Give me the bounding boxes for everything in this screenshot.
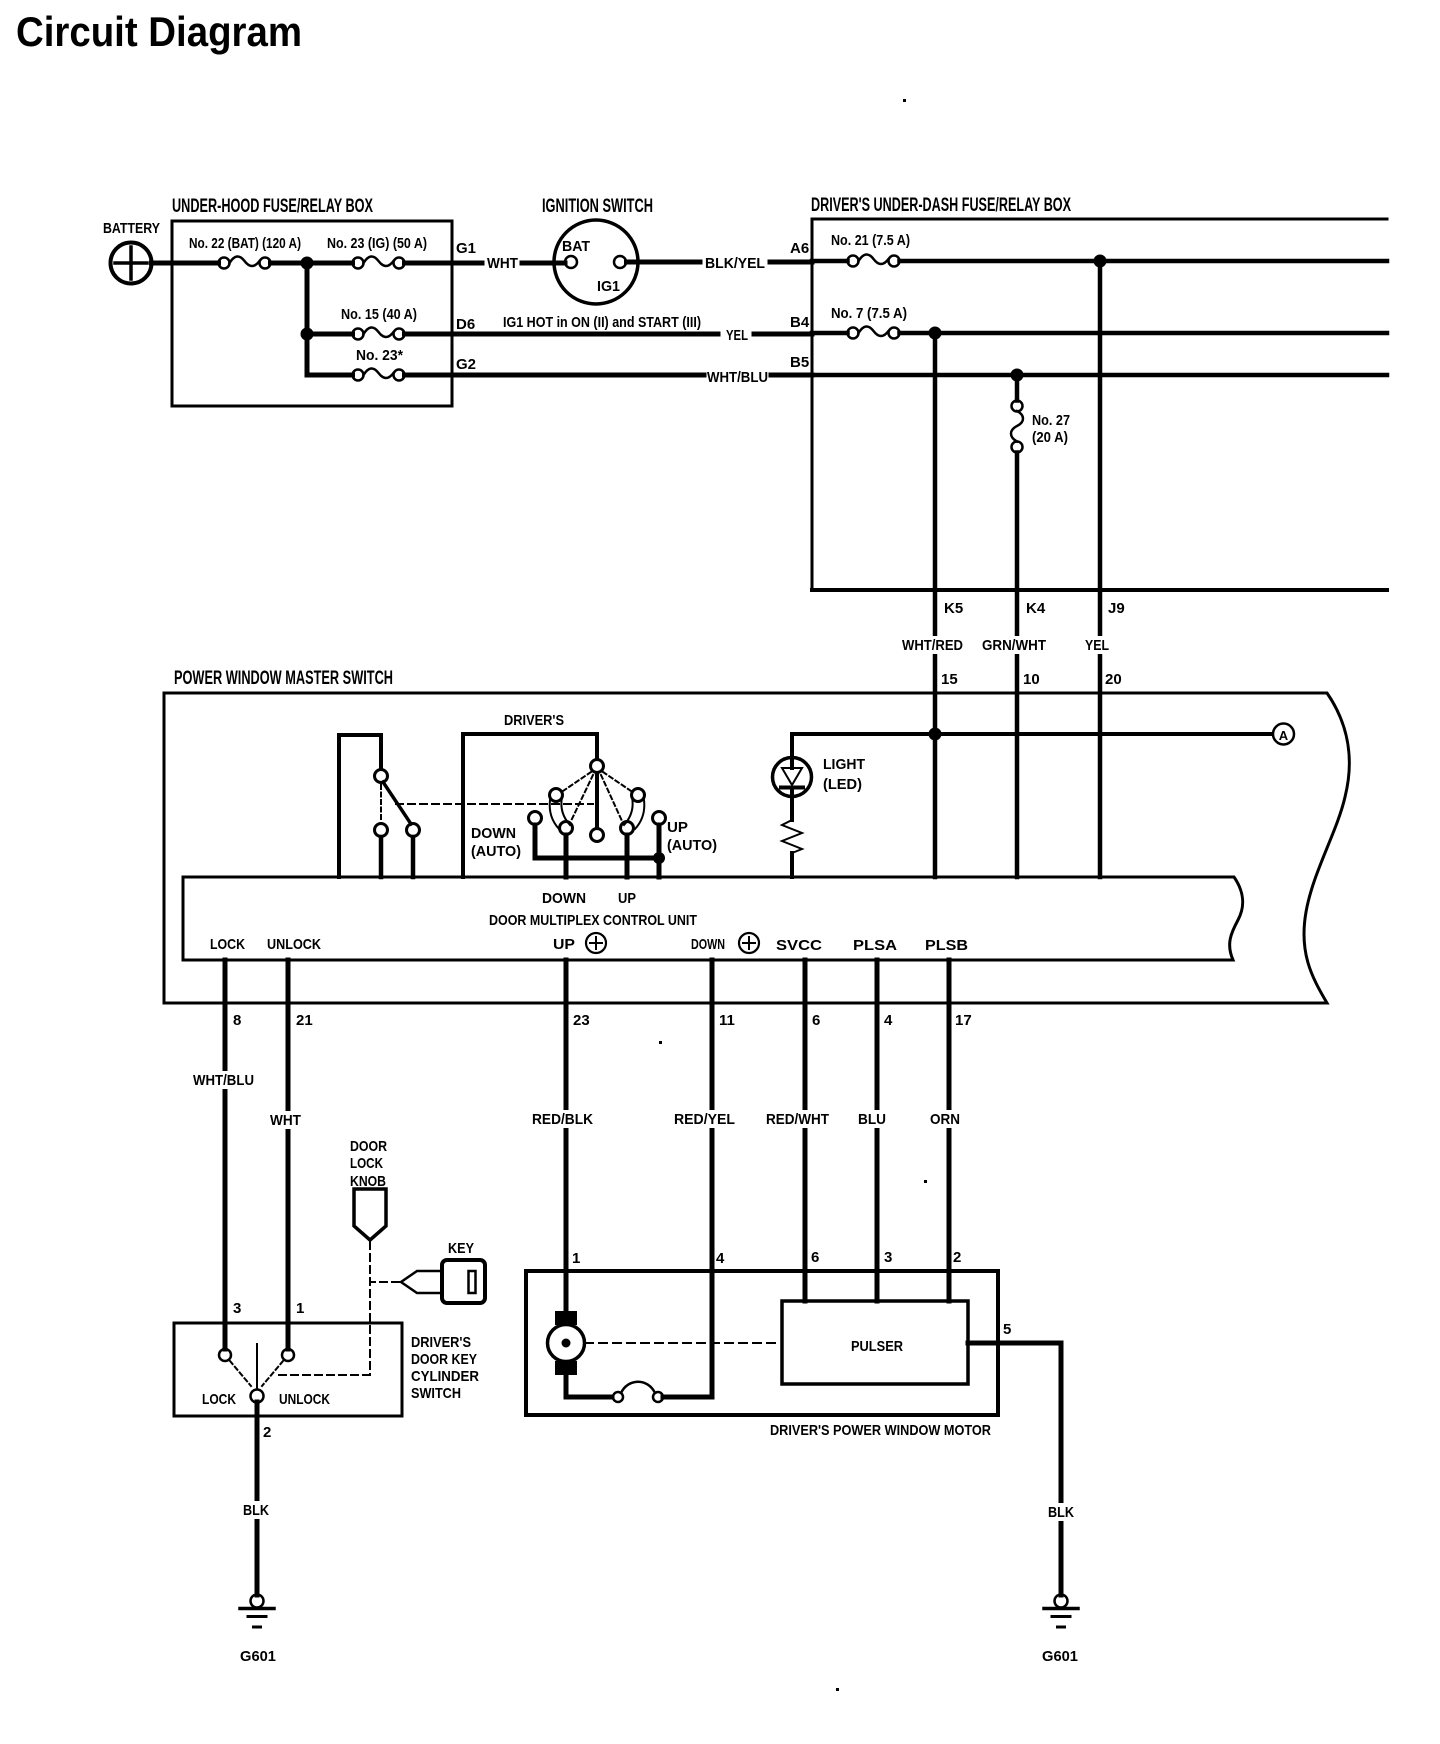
- svg-text:BLK/YEL: BLK/YEL: [705, 255, 765, 272]
- vertical wire junction down: [305, 263, 310, 334]
- speck: [903, 99, 906, 102]
- svg-text:WHT/BLU: WHT/BLU: [707, 369, 768, 386]
- svg-text:DRIVER'S: DRIVER'S: [504, 712, 564, 729]
- fuse No.23*: [353, 368, 405, 380]
- dashed fan line 3: [601, 775, 622, 821]
- svg-text:RED/WHT: RED/WHT: [766, 1111, 829, 1128]
- svg-text:(AUTO): (AUTO): [471, 843, 521, 860]
- label DOOR LOCK KNOB: [350, 1138, 387, 1190]
- svg-text:UNDER-HOOD FUSE/RELAY BOX: UNDER-HOOD FUSE/RELAY BOX: [172, 196, 373, 217]
- svg-text:DRIVER'S POWER WINDOW MOTOR: DRIVER'S POWER WINDOW MOTOR: [770, 1422, 991, 1439]
- dashed link lock to drivers: [396, 803, 593, 805]
- svg-text:LOCK: LOCK: [202, 1391, 236, 1408]
- wire up-auto drop: [657, 825, 662, 877]
- svg-text:J9: J9: [1108, 600, 1125, 617]
- svg-text:PLSA: PLSA: [853, 937, 897, 954]
- wire WHT to ignition BAT: [522, 261, 565, 266]
- svg-text:SVCC: SVCC: [776, 937, 822, 954]
- lock switch pivot contact: [375, 770, 388, 783]
- wire auto bus: [535, 825, 659, 858]
- wire DOWN drop: [710, 960, 715, 1397]
- svg-text:UP: UP: [553, 936, 575, 953]
- svg-text:BLK: BLK: [1048, 1504, 1074, 1521]
- connector A: [1273, 724, 1294, 745]
- svg-text:IG1: IG1: [597, 278, 620, 295]
- svg-text:17: 17: [955, 1012, 972, 1029]
- svg-text:No. 27: No. 27: [1032, 412, 1070, 429]
- svg-text:GRN/WHT: GRN/WHT: [982, 637, 1046, 654]
- svg-text:3: 3: [233, 1300, 241, 1317]
- svg-text:DOOR MULTIPLEX CONTROL UNIT: DOOR MULTIPLEX CONTROL UNIT: [489, 912, 697, 929]
- svg-text:RED/YEL: RED/YEL: [674, 1111, 735, 1128]
- svg-text:A: A: [1279, 728, 1289, 743]
- wire battery to fuse box: [152, 261, 219, 266]
- ground G601 left: [240, 1595, 274, 1628]
- label RED/BLK: [529, 1110, 596, 1128]
- svg-text:BLK: BLK: [243, 1502, 269, 1519]
- fuse No.7 (7.5A): [812, 326, 900, 338]
- dashed motor to pulser: [585, 1342, 781, 1344]
- svg-text:11: 11: [719, 1012, 735, 1029]
- wire junction to fuse23: [307, 261, 353, 266]
- svg-text:(LED): (LED): [823, 776, 862, 793]
- svg-text:WHT/RED: WHT/RED: [902, 637, 963, 654]
- speck: [836, 1688, 839, 1691]
- svg-text:RED/BLK: RED/BLK: [532, 1111, 593, 1128]
- key switch contact unlock: [282, 1349, 294, 1361]
- svg-text:WHT: WHT: [487, 255, 518, 272]
- drivers power window motor box: [526, 1271, 998, 1415]
- label GRN/WHT: [979, 636, 1049, 654]
- svg-text:15: 15: [941, 671, 958, 688]
- svg-text:No. 23 (IG) (50 A): No. 23 (IG) (50 A): [327, 235, 427, 252]
- wire down contact drop: [564, 835, 569, 877]
- svg-text:LOCK: LOCK: [350, 1155, 383, 1172]
- wire G2 row out: [405, 373, 705, 378]
- label UP (AUTO): [667, 819, 717, 854]
- svg-text:UNLOCK: UNLOCK: [279, 1391, 330, 1408]
- svg-text:6: 6: [812, 1012, 820, 1029]
- node K4 junction: [1011, 369, 1024, 382]
- svg-text:8: 8: [233, 1012, 241, 1029]
- symbol plus DOWN: [739, 933, 759, 953]
- svg-text:LIGHT: LIGHT: [823, 756, 865, 773]
- svg-text:(20 A): (20 A): [1032, 429, 1068, 446]
- svg-text:DOOR KEY: DOOR KEY: [411, 1351, 477, 1368]
- drivers switch center contact: [591, 829, 604, 842]
- fuse No.27 (20A) vertical: [1011, 375, 1023, 453]
- svg-text:BATTERY: BATTERY: [103, 220, 160, 237]
- svg-text:CYLINDER: CYLINDER: [411, 1368, 479, 1385]
- svg-text:Circuit Diagram: Circuit Diagram: [16, 8, 302, 55]
- wire junction to fuse15: [307, 332, 353, 337]
- node auto junction: [653, 852, 665, 864]
- svg-text:DOWN: DOWN: [471, 825, 516, 842]
- vertical wire junction down 2: [305, 334, 310, 375]
- lock switch frame: [339, 735, 381, 877]
- wire BLK/YEL to box: [770, 260, 812, 265]
- svg-text:B5: B5: [790, 354, 809, 371]
- label ORN: [927, 1110, 963, 1128]
- battery: [111, 243, 152, 284]
- svg-text:UNLOCK: UNLOCK: [267, 936, 321, 953]
- dashed knob link vertical: [369, 1242, 371, 1375]
- node junction B: [301, 328, 314, 341]
- svg-text:D6: D6: [456, 316, 475, 333]
- svg-text:IGNITION SWITCH: IGNITION SWITCH: [542, 196, 653, 217]
- resistor R led: [782, 820, 802, 853]
- svg-text:DOWN: DOWN: [542, 890, 586, 907]
- dashed knob link horizontal: [277, 1374, 370, 1376]
- key: [401, 1260, 485, 1303]
- svg-text:DOOR: DOOR: [350, 1138, 387, 1155]
- drivers contact up-auto: [653, 812, 666, 825]
- drivers contact down upper: [550, 789, 563, 802]
- node junction A (fuse bus): [301, 257, 314, 270]
- label BLK right: [1045, 1503, 1077, 1521]
- drivers contact down-auto: [529, 812, 542, 825]
- svg-text:23: 23: [573, 1012, 590, 1029]
- svg-text:KEY: KEY: [448, 1240, 474, 1257]
- svg-text:1: 1: [572, 1250, 580, 1267]
- svg-text:(AUTO): (AUTO): [667, 837, 717, 854]
- wire K4 vertical: [1015, 453, 1020, 878]
- wire UP drop: [564, 960, 569, 1312]
- wire pulser pin5: [968, 1343, 1061, 1595]
- power window master switch box: [164, 693, 1349, 1003]
- drivers contact up lower: [621, 822, 634, 835]
- wire lock contact stub left: [379, 837, 384, 877]
- speck: [659, 1041, 662, 1044]
- svg-text:B4: B4: [790, 314, 810, 331]
- drivers switch pivot: [591, 760, 604, 773]
- node J9 junction: [1094, 255, 1107, 268]
- wire resistor to unit: [790, 853, 794, 877]
- fuse No.15 (40A): [353, 327, 405, 339]
- svg-text:ORN: ORN: [930, 1111, 960, 1128]
- wire to connector A: [792, 732, 1272, 736]
- svg-text:G2: G2: [456, 356, 476, 373]
- node K5 led junction: [929, 728, 942, 741]
- motor M1: [548, 1311, 585, 1375]
- drivers door key cylinder switch box: [174, 1323, 402, 1416]
- svg-text:SWITCH: SWITCH: [411, 1385, 461, 1402]
- wire bridge to pin4: [663, 1395, 712, 1400]
- wire LOCK drop: [223, 960, 228, 1349]
- svg-text:G601: G601: [240, 1648, 276, 1665]
- wire B4 bus: [900, 331, 1388, 336]
- svg-text:G1: G1: [456, 240, 476, 257]
- lock switch dashed neutral: [380, 785, 382, 820]
- lock switch blade: [383, 782, 411, 824]
- svg-text:IG1 HOT in ON (II) and START (: IG1 HOT in ON (II) and START (III): [503, 314, 701, 331]
- svg-text:DOWN: DOWN: [691, 936, 725, 953]
- drivers switch frame: [463, 734, 597, 877]
- pulser box: [782, 1301, 968, 1384]
- wire B5 bus: [812, 373, 1387, 378]
- dashed fan line 2: [571, 775, 593, 821]
- lock switch contact left: [375, 824, 388, 837]
- fuse No.21 (7.5A): [812, 254, 900, 266]
- dashed key link: [370, 1281, 399, 1283]
- dashed fan line 1: [563, 772, 591, 791]
- arc blade down: [550, 797, 570, 829]
- key switch blade: [256, 1344, 258, 1389]
- svg-text:G601: G601: [1042, 1648, 1078, 1665]
- svg-text:2: 2: [953, 1249, 961, 1266]
- svg-text:K4: K4: [1026, 600, 1046, 617]
- wire PLSB drop: [947, 960, 952, 1301]
- svg-text:BLU: BLU: [858, 1111, 886, 1128]
- svg-text:LOCK: LOCK: [210, 936, 245, 953]
- label WHT/BLU wire: [190, 1071, 257, 1089]
- bridge arc: [621, 1382, 655, 1393]
- dashed blade to lock: [230, 1361, 251, 1386]
- dashed blade to unlock: [262, 1361, 283, 1386]
- drivers contact up upper: [632, 789, 645, 802]
- arc blade up: [624, 797, 644, 829]
- door multiplex control unit box: [183, 877, 1243, 960]
- svg-text:2: 2: [263, 1424, 271, 1441]
- svg-text:PLSB: PLSB: [925, 937, 968, 954]
- label BLK left: [240, 1501, 272, 1519]
- svg-text:No. 23*: No. 23*: [356, 347, 403, 364]
- wire IG1 out: [627, 260, 701, 265]
- svg-text:No. 7 (7.5 A): No. 7 (7.5 A): [831, 305, 907, 322]
- ground G601 right: [1044, 1595, 1078, 1628]
- LED light: [773, 758, 812, 821]
- bridge contact left: [613, 1392, 623, 1402]
- label BLU: [855, 1110, 889, 1128]
- fuse No.23 (IG) (50A): [353, 256, 405, 268]
- label RED/YEL: [671, 1110, 738, 1128]
- wire motor to bridge: [566, 1375, 612, 1397]
- dashed fan line 4: [603, 772, 631, 791]
- label DOWN (AUTO): [471, 825, 521, 860]
- label WHT wire: [267, 1111, 304, 1129]
- drivers switch lever: [595, 773, 599, 828]
- wire J9 vertical: [1098, 261, 1103, 877]
- wire to fuse23b: [307, 373, 353, 378]
- wire UNLOCK drop: [286, 960, 291, 1349]
- ignition switch: [554, 220, 638, 304]
- wire up contact drop: [625, 835, 630, 877]
- label WHT/RED: [899, 636, 966, 654]
- svg-text:4: 4: [884, 1012, 893, 1029]
- wire fuse23 to G1 out: [405, 261, 483, 266]
- drivers contact down lower: [560, 822, 573, 835]
- wire D6 row out: [405, 332, 719, 337]
- under-hood fuse/relay box: [172, 221, 452, 406]
- wire WHT/BLU to box: [771, 373, 812, 378]
- wire PLSA drop: [875, 960, 880, 1301]
- svg-text:DRIVER'S UNDER-DASH FUSE/RELAY: DRIVER'S UNDER-DASH FUSE/RELAY BOX: [811, 195, 1071, 216]
- svg-text:10: 10: [1023, 671, 1040, 688]
- lock switch contact right: [407, 824, 420, 837]
- label YEL pin20: [1082, 636, 1112, 654]
- svg-text:K5: K5: [944, 600, 963, 617]
- wire lock contact stub right: [411, 837, 416, 877]
- svg-text:BAT: BAT: [562, 238, 590, 255]
- svg-text:No. 15 (40 A): No. 15 (40 A): [341, 306, 417, 323]
- svg-text:3: 3: [884, 1249, 892, 1266]
- svg-text:POWER WINDOW MASTER SWITCH: POWER WINDOW MASTER SWITCH: [174, 668, 393, 689]
- key switch contact lock: [219, 1349, 231, 1361]
- node K5 junction: [929, 327, 942, 340]
- svg-text:5: 5: [1003, 1321, 1011, 1338]
- symbol plus UP: [586, 933, 606, 953]
- svg-text:YEL: YEL: [1085, 637, 1109, 654]
- wire SVCC drop: [803, 960, 808, 1301]
- wire K5 vertical: [933, 333, 938, 877]
- door lock knob: [354, 1189, 386, 1240]
- svg-text:No. 21 (7.5 A): No. 21 (7.5 A): [831, 232, 910, 249]
- wire A6 bus: [900, 259, 1388, 264]
- svg-text:6: 6: [811, 1249, 819, 1266]
- svg-text:4: 4: [716, 1250, 725, 1267]
- svg-text:DRIVER'S: DRIVER'S: [411, 1334, 471, 1351]
- speck: [924, 1180, 927, 1183]
- label LIGHT (LED): [823, 756, 865, 793]
- svg-text:20: 20: [1105, 671, 1122, 688]
- wire LED feed: [790, 734, 794, 760]
- svg-text:WHT/BLU: WHT/BLU: [193, 1072, 254, 1089]
- wire common to ground: [255, 1402, 260, 1595]
- bridge contact right: [653, 1392, 663, 1402]
- under-dash fuse/relay box: [812, 219, 1387, 590]
- svg-text:A6: A6: [790, 240, 809, 257]
- svg-text:PULSER: PULSER: [851, 1338, 903, 1355]
- label RED/WHT: [763, 1110, 832, 1128]
- svg-text:21: 21: [296, 1012, 313, 1029]
- label driver's door key cylinder switch: [411, 1334, 479, 1402]
- wire fuse22 to junction: [271, 261, 308, 266]
- wire YEL to box: [754, 332, 812, 337]
- svg-text:No. 22 (BAT) (120 A): No. 22 (BAT) (120 A): [189, 235, 301, 252]
- svg-text:UP: UP: [667, 819, 688, 836]
- fuse No.27 label: [1032, 412, 1070, 446]
- svg-text:YEL: YEL: [726, 327, 748, 344]
- svg-text:WHT: WHT: [270, 1112, 301, 1129]
- svg-text:1: 1: [296, 1300, 304, 1317]
- key switch common contact: [251, 1390, 264, 1403]
- svg-text:UP: UP: [618, 890, 636, 907]
- fuse No.22 (BAT) (120A): [219, 256, 271, 268]
